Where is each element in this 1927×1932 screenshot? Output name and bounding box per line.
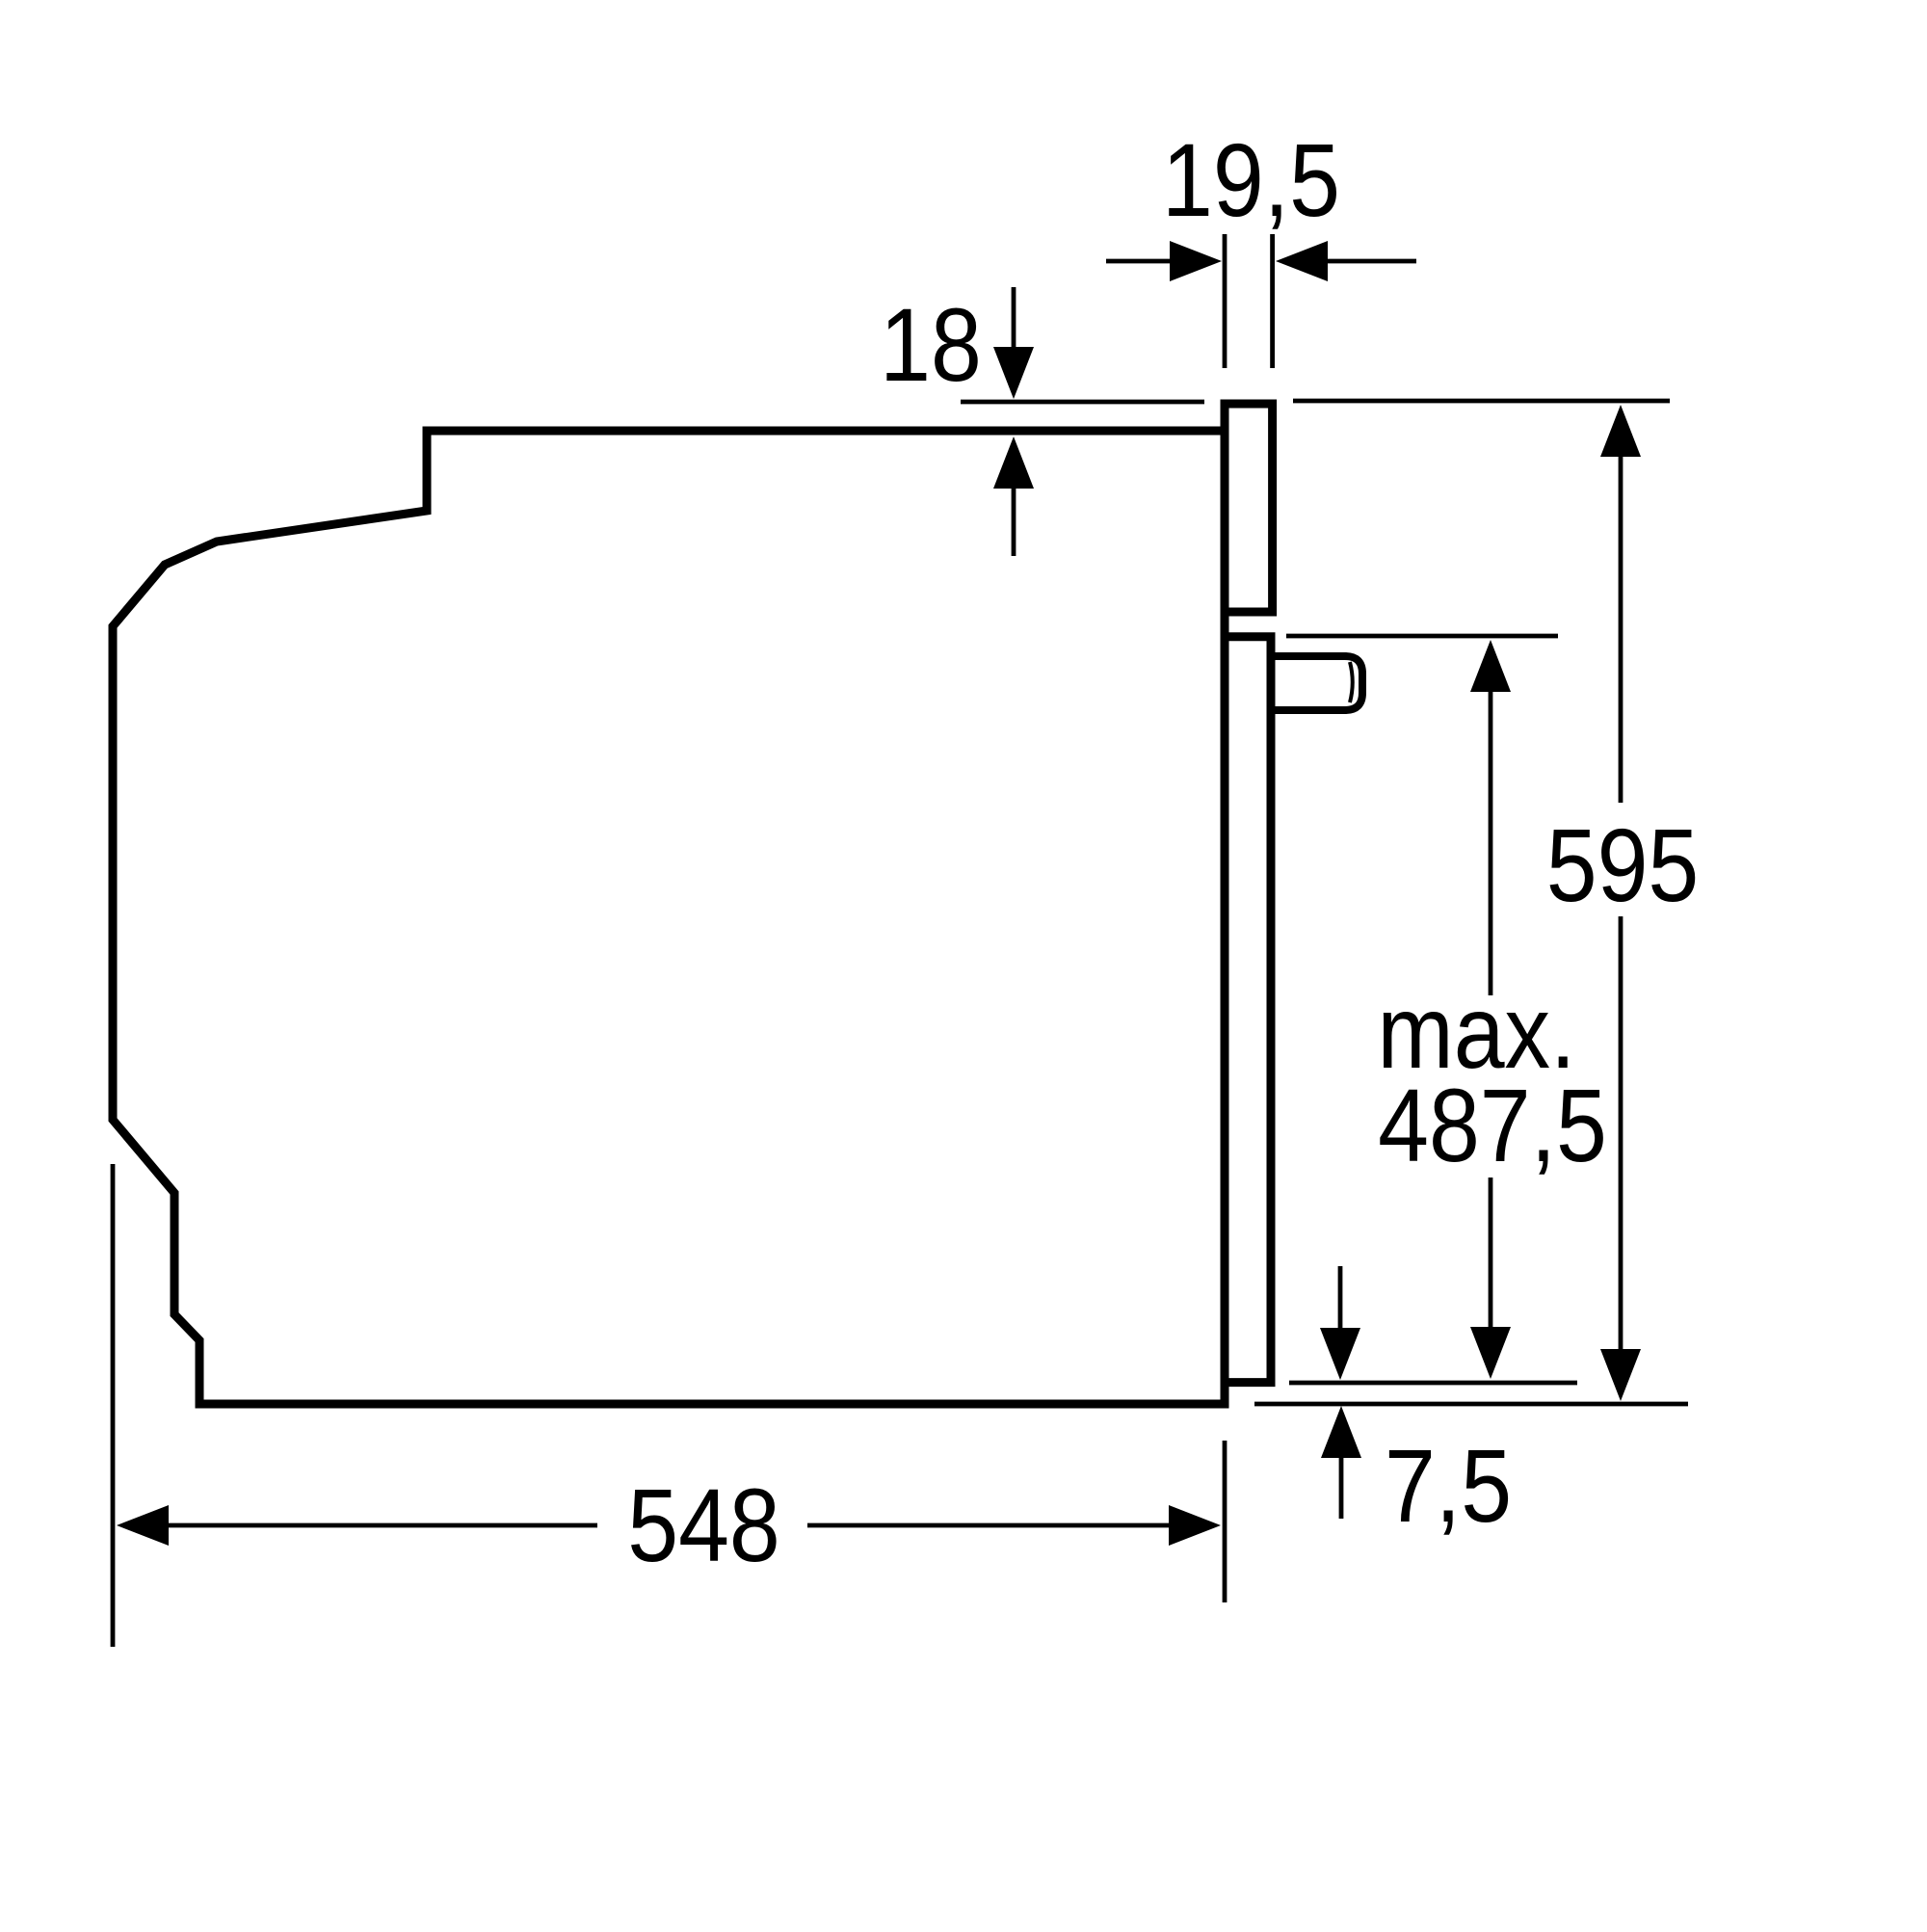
dimension 7,5 upper arrow line [1338,1266,1343,1334]
svg-text:19,5: 19,5 [1162,121,1340,238]
dimension 18 lower arrowhead [993,437,1034,489]
dimension 7,5 lower arrow line [1339,1452,1344,1519]
dimension max 487,5 top extension line [1286,634,1558,639]
dimension max 487,5 bottom arrowhead [1470,1327,1511,1379]
dimension 7,5 upper arrowhead [1320,1328,1360,1380]
dimension 595 top extension line [1293,399,1670,404]
dimension 548 right extension line [1223,1441,1227,1602]
dimension 595 bottom arrowhead [1600,1349,1641,1401]
dimension 7,5 lower arrowhead [1321,1406,1361,1458]
dimension max 487,5 bottom extension line [1289,1381,1577,1386]
svg-text:7,5: 7,5 [1385,1427,1512,1544]
svg-text:18: 18 [880,286,982,403]
dimension max 487,5 line lower segment [1489,1178,1493,1333]
oven door outline [1221,637,1272,1383]
dimension 595 line upper segment [1619,451,1623,803]
dimension 595 line lower segment [1619,916,1623,1355]
dimension 18 lower arrow line [1012,482,1016,556]
dimension 19,5 right arrowhead [1276,241,1328,281]
dimension 18 extension line [961,400,1204,405]
dimension max 487,5 line upper segment [1489,686,1493,995]
dimension 595 bottom extension line [1254,1402,1688,1407]
control panel box [1225,404,1273,612]
dimension max 487,5 top arrowhead [1470,640,1511,692]
dimension 548 left extension line [111,1164,116,1647]
dimension 18 upper arrowhead [993,347,1034,399]
dimension 548 line right segment [807,1523,1169,1528]
control knob [1271,656,1362,710]
dimension 19,5 right extension line [1270,234,1275,368]
door front face (left edge of fascia) [1221,400,1229,1384]
dimension 19,5 left extension line [1223,234,1227,368]
oven cabinet outline [113,431,1225,1404]
dimension 548 left arrowhead [117,1505,169,1546]
dimension 19,5 left arrow line [1106,259,1175,264]
dimension 19,5 left arrowhead [1170,241,1222,281]
dimension 19,5 right arrow line [1322,259,1416,264]
svg-text:487,5: 487,5 [1378,1067,1607,1183]
svg-text:548: 548 [627,1467,780,1583]
dimension 595 top arrowhead [1600,405,1641,457]
dimension 18 upper arrow line [1012,287,1016,353]
dimension 548 line left segment [169,1523,597,1528]
svg-text:595: 595 [1546,807,1700,923]
knob face arc [1350,662,1353,702]
dimension 548 right arrowhead [1169,1505,1221,1546]
